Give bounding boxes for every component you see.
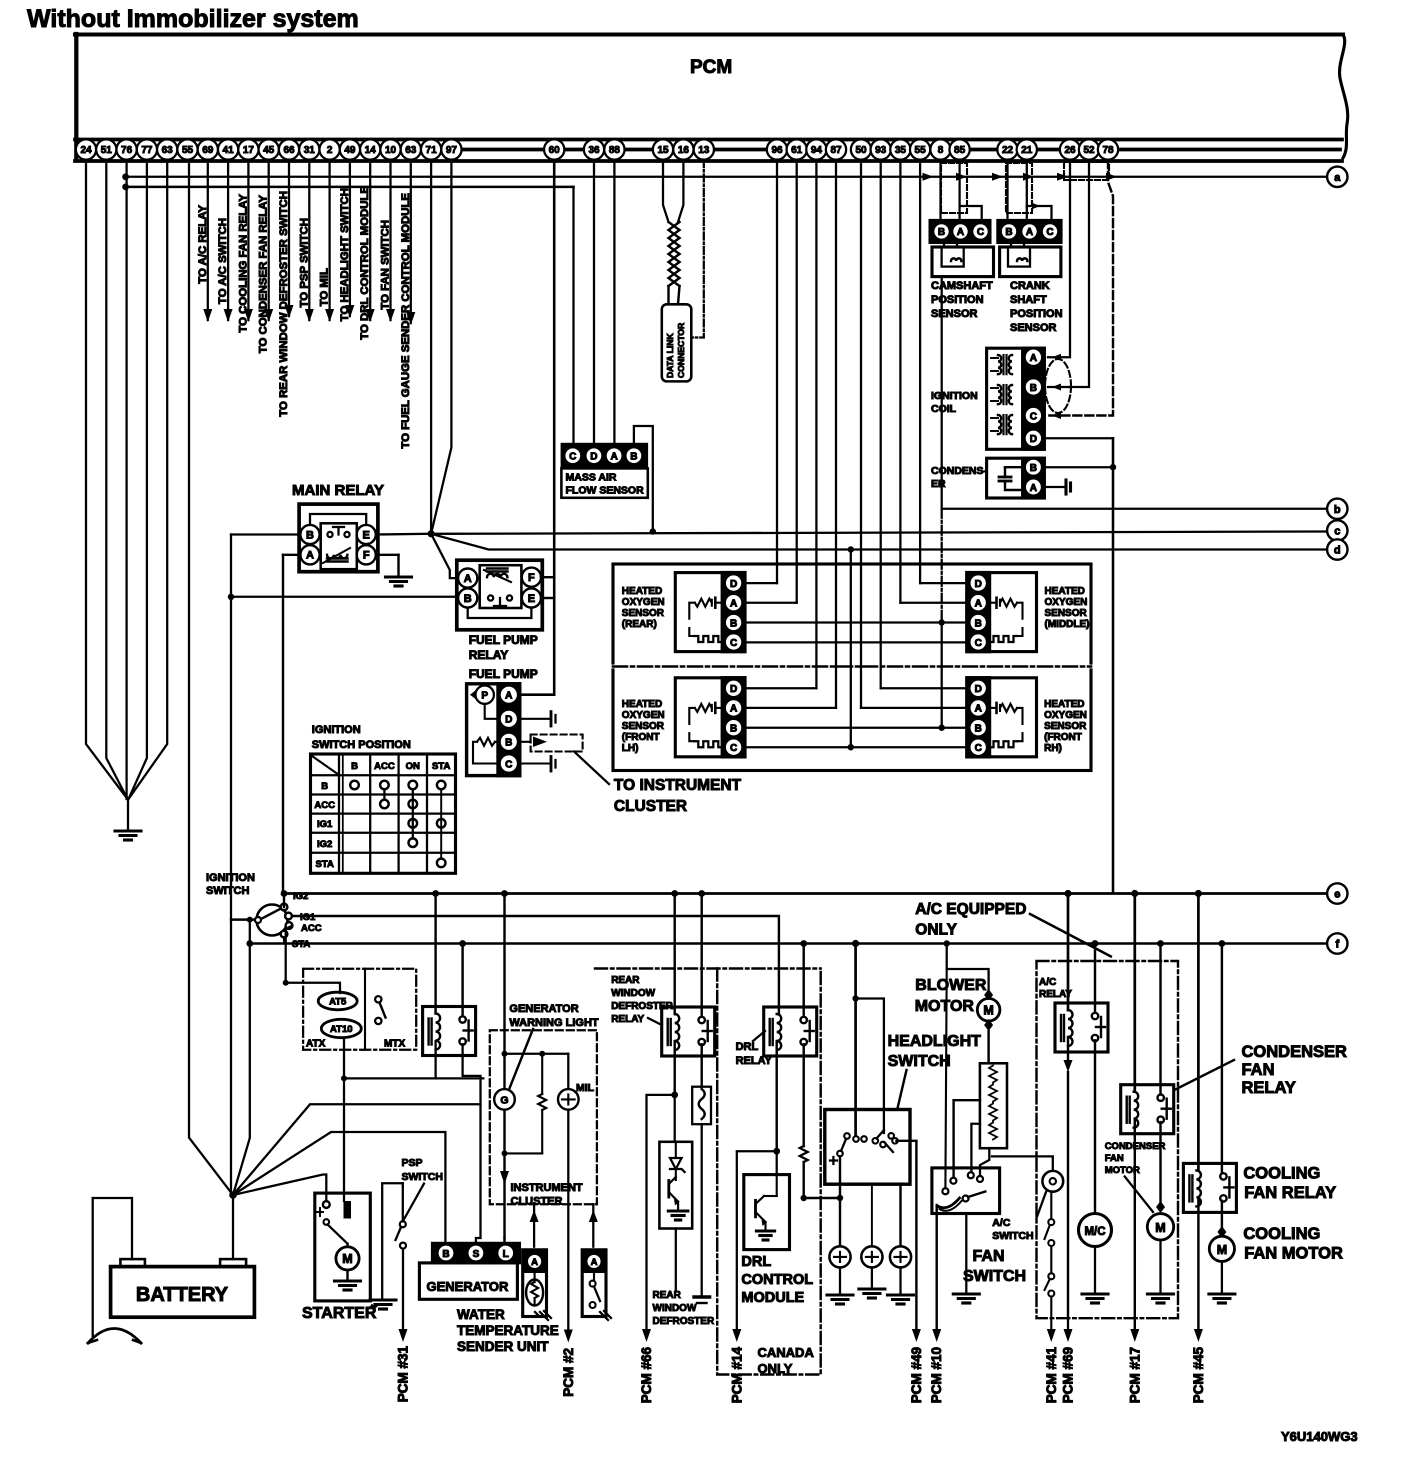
wire condenser B to right vertical (1044, 466, 1113, 468)
headlight switch outputs (839, 1156, 841, 1246)
bus line a from pin 76 to node a (126, 176, 1327, 178)
svg-text:A: A (1026, 227, 1033, 238)
fuel pump internal resistor (477, 738, 495, 746)
svg-text:CONDENSER: CONDENSER (1242, 1043, 1348, 1061)
svg-text:A/C: A/C (992, 1217, 1011, 1229)
wire IG1 to DRL relay (292, 916, 779, 1014)
DRL module transistor (776, 1175, 778, 1196)
thermal fuse box (692, 1087, 711, 1125)
wire node e to cooling fan relay coil and PCM 45 (1195, 890, 1202, 897)
svg-text:97: 97 (446, 145, 458, 156)
arrow PCM 45 (1194, 1329, 1203, 1342)
crankshaft position sensor shield dashed box (1006, 163, 1032, 213)
data link connector box (662, 304, 692, 381)
MIL lamp (567, 1054, 569, 1089)
wire node f to cooling fan relay contact (1219, 940, 1226, 947)
fuel pump internal wires (485, 704, 500, 719)
water temperature sender unit box (523, 1250, 547, 1317)
wire node e to defroster relay coil (671, 890, 678, 897)
svg-text:D: D (975, 579, 982, 590)
svg-text:D: D (975, 684, 982, 695)
PCM pin 60 (544, 139, 564, 159)
svg-text:B: B (1030, 383, 1037, 394)
AC relay contact output to MC clutch (1094, 1040, 1096, 1214)
svg-text:21: 21 (1021, 145, 1033, 156)
wire fuel pump C to battery bar (520, 762, 551, 764)
svg-text:A: A (957, 227, 964, 238)
svg-text:RH): RH) (1044, 743, 1062, 754)
svg-text:52: 52 (1083, 145, 1095, 156)
svg-text:MOTOR: MOTOR (1105, 1165, 1140, 1176)
wire node f to DRL relay contact (800, 940, 807, 947)
fuel pump relay inner box (480, 565, 522, 608)
fuel pump relay contact (488, 595, 493, 600)
AT10 ellipse (321, 1019, 361, 1037)
rear window defroster element (694, 1295, 710, 1298)
wire STA feed down to battery junction (233, 920, 250, 1195)
cluster feed bus (505, 1053, 569, 1055)
stub wire TO MIL (328, 160, 330, 320)
svg-text:MASS AIR: MASS AIR (566, 472, 617, 484)
leader condenser fan relay (1175, 1060, 1234, 1090)
svg-text:TO HEADLIGHT SWITCH: TO HEADLIGHT SWITCH (339, 188, 351, 321)
svg-text:B: B (938, 227, 945, 238)
svg-text:D: D (730, 579, 737, 590)
svg-text:ACC: ACC (314, 800, 335, 811)
node c line (431, 532, 1326, 534)
svg-text:MTX: MTX (384, 1039, 405, 1050)
svg-text:PCM #49: PCM #49 (909, 1347, 924, 1403)
svg-text:IGNITION: IGNITION (206, 872, 255, 884)
node c circle (1327, 520, 1347, 540)
twisted pair wires pins 15 16 to data link connector (663, 160, 669, 222)
wire junction to battery positive (232, 1195, 234, 1259)
svg-text:TO FUEL GAUGE SENDER CONTROL M: TO FUEL GAUGE SENDER CONTROL MODULE (400, 193, 412, 449)
wire pin 26 to ignition coil A (1048, 160, 1070, 357)
svg-text:A: A (730, 599, 737, 610)
svg-text:SWITCH: SWITCH (963, 1268, 1026, 1285)
arrow PCM 69 (1064, 1329, 1073, 1342)
DRL relay contact output (802, 1044, 804, 1146)
svg-text:22: 22 (1002, 145, 1014, 156)
main relay pin circles B A E F (300, 525, 319, 544)
svg-text:POSITION: POSITION (1010, 308, 1063, 320)
leader headlight switch (897, 1070, 906, 1109)
svg-text:2: 2 (327, 145, 333, 156)
svg-text:C: C (1046, 227, 1053, 238)
svg-text:b: b (1334, 504, 1341, 516)
wire fuel pump B to instrument cluster arrow (520, 741, 531, 743)
fan switch box (932, 1168, 1000, 1214)
stub wire TO CONDENSER FAN RELAY (268, 160, 270, 320)
svg-text:69: 69 (202, 145, 214, 156)
svg-text:SENSOR: SENSOR (1045, 608, 1088, 619)
canada only dashed box (595, 967, 821, 969)
PCM pins 8 85 (930, 139, 950, 159)
leader defroster relay (648, 1018, 662, 1025)
svg-text:PCM #45: PCM #45 (1191, 1347, 1206, 1404)
stub wire TO PSP SWITCH (308, 160, 310, 320)
svg-text:31: 31 (304, 145, 316, 156)
wire cluster to ammeter A right (592, 1204, 594, 1247)
svg-text:49: 49 (344, 145, 356, 156)
ignition switch position table grid (311, 754, 456, 873)
wire pin 52 to ignition coil B (1048, 160, 1089, 387)
svg-text:D: D (505, 715, 512, 726)
fan switch output to ground (965, 1214, 967, 1294)
svg-text:AT5: AT5 (329, 997, 347, 1008)
battery negative wire to body ground (93, 1198, 132, 1336)
defroster relay contact output to thermal fuse (700, 1044, 702, 1086)
svg-text:IG1: IG1 (317, 819, 333, 830)
fuel pump relay bottom internal wire (468, 608, 532, 618)
main relay box (299, 504, 378, 572)
condenser capacitor symbol (1004, 467, 1006, 477)
node f circle (1327, 933, 1347, 953)
wire fan switch resistor to AC switch knob (992, 1156, 1053, 1170)
leader AC equipped only (1030, 914, 1111, 956)
AT5 ellipse (318, 992, 357, 1010)
svg-text:SWITCH: SWITCH (992, 1230, 1033, 1242)
wire AT10 down to starter solenoid (343, 1038, 345, 1201)
svg-text:MODULE: MODULE (741, 1290, 804, 1306)
relay outputs (434, 1041, 436, 1078)
svg-text:TO DRL CONTROL MODULE: TO DRL CONTROL MODULE (359, 186, 371, 340)
svg-text:C: C (977, 227, 984, 238)
svg-text:A: A (464, 573, 472, 585)
MAF sensor connector (562, 445, 646, 468)
ignition coil box (987, 348, 1045, 449)
wire thermal fuse to defroster element (701, 1124, 703, 1297)
main relay coil (327, 555, 347, 558)
wire MIL to PCM 2 (567, 1110, 569, 1329)
wires pins 24 51 76 77 63 funnel to ground (86, 160, 128, 799)
node b line (942, 508, 1327, 510)
svg-text:B: B (1005, 227, 1012, 238)
svg-text:COIL: COIL (931, 403, 957, 415)
svg-text:41: 41 (223, 145, 235, 156)
PCM pin strip lines (75, 138, 1342, 142)
leader DRL relay (753, 1031, 765, 1041)
wire node f to AC relay contact (1092, 940, 1099, 947)
svg-text:DRL: DRL (741, 1254, 771, 1270)
svg-text:FLOW SENSOR: FLOW SENSOR (566, 485, 645, 497)
wire node e to relay coil (432, 890, 439, 897)
svg-text:d: d (1334, 545, 1341, 557)
svg-text:M: M (342, 1252, 352, 1266)
svg-text:COOLING: COOLING (1243, 1165, 1320, 1183)
svg-text:A: A (610, 452, 617, 463)
svg-text:45: 45 (263, 145, 275, 156)
crankshaft sensor connector B A C (998, 221, 1061, 243)
wire blower feed down to fan switch contact (945, 969, 946, 1188)
svg-text:(FRONT: (FRONT (1044, 732, 1082, 743)
svg-text:RELAY: RELAY (1242, 1079, 1296, 1097)
wire fuel pump relay F to pin 60 wire (541, 576, 554, 578)
stub wire TO FUEL GAUGE SENDER CONTROL MODULE (410, 160, 412, 323)
svg-text:TO CONDENSER FAN RELAY: TO CONDENSER FAN RELAY (258, 195, 270, 354)
wire pin 93 to front rh sensor D (880, 160, 882, 688)
svg-text:24: 24 (80, 145, 92, 156)
svg-text:e: e (1334, 889, 1340, 901)
wire pin 22 to crankshaft B (1006, 160, 1008, 221)
PCM pins 36 88 (584, 139, 604, 159)
wire pin 55 to middle sensor D (919, 160, 921, 583)
node d circle (1327, 539, 1347, 559)
svg-text:STARTER: STARTER (302, 1305, 377, 1322)
svg-text:ATX: ATX (306, 1039, 326, 1050)
stub wire TO COOLING FAN RELAY (247, 160, 249, 320)
svg-text:35: 35 (895, 145, 907, 156)
cooling fan relay contact output to motor (1221, 1201, 1223, 1228)
crankshaft sensor body with pickup coil (1000, 247, 1061, 277)
svg-text:IG1: IG1 (300, 912, 316, 923)
svg-text:10: 10 (385, 145, 397, 156)
svg-text:IGNITION: IGNITION (312, 724, 361, 736)
resistor taps (954, 1100, 980, 1178)
battery vertical wire main (230, 535, 232, 1196)
PSP feed to ground (382, 1183, 403, 1299)
svg-text:TO FAN SWITCH: TO FAN SWITCH (380, 220, 392, 310)
svg-text:PCM #31: PCM #31 (396, 1346, 411, 1403)
stub wire TO REAR WINDOW DEFROSTER SWITCH (288, 160, 290, 316)
svg-text:B: B (975, 618, 982, 629)
generator terminal S (462, 1243, 490, 1263)
wire pin 61 to rear sensor A (796, 160, 798, 603)
svg-text:a: a (1334, 172, 1341, 184)
arrow PCM 31 (399, 1329, 408, 1342)
wire front lh B to front rh B common (745, 727, 967, 729)
wire node e to condenser fan relay coil and PCM 17 (1131, 890, 1138, 897)
svg-text:GENERATOR: GENERATOR (509, 1003, 578, 1015)
svg-text:SENSOR: SENSOR (1044, 721, 1087, 732)
svg-text:DRL: DRL (736, 1041, 759, 1053)
svg-text:71: 71 (426, 145, 438, 156)
bus line 2 from pin 76 to MAF C (126, 186, 574, 189)
starter solenoid coil (344, 1201, 352, 1219)
wire pin 85 to camshaft A (958, 160, 960, 221)
leader generator warning light (508, 1029, 533, 1092)
node e circle (1327, 883, 1347, 903)
ground transistor (668, 1209, 688, 1212)
wire pin 50 to front rh sensor A (860, 160, 862, 708)
wire step to camshaft C (960, 206, 982, 221)
svg-text:88: 88 (609, 145, 621, 156)
wire pin 87 to front lh sensor A (835, 160, 837, 708)
svg-text:CRANK: CRANK (1010, 280, 1050, 292)
svg-text:66: 66 (283, 145, 295, 156)
svg-text:f: f (1335, 939, 1339, 951)
blower resistor block (980, 1063, 1007, 1148)
ground for pins 24-63 (115, 829, 141, 832)
svg-text:(REAR): (REAR) (622, 619, 657, 630)
wire pin 36 to MAF D (593, 160, 595, 445)
svg-text:TO PSP SWITCH: TO PSP SWITCH (298, 218, 310, 307)
svg-text:SWITCH: SWITCH (206, 885, 249, 897)
svg-text:M/C: M/C (1084, 1226, 1105, 1238)
svg-text:SWITCH POSITION: SWITCH POSITION (312, 739, 411, 751)
fuel pump relay pins A B F E (458, 569, 477, 588)
relay rear window defroster (662, 1007, 715, 1056)
svg-text:FAN: FAN (1242, 1061, 1275, 1079)
generator box (419, 1263, 517, 1299)
svg-text:PCM #69: PCM #69 (1061, 1347, 1076, 1403)
svg-text:CLUSTER: CLUSTER (614, 798, 687, 815)
relay DRL (764, 1007, 817, 1056)
svg-text:85: 85 (954, 145, 966, 156)
relay AC (1055, 1003, 1108, 1052)
node b circle (1327, 499, 1347, 519)
svg-text:C: C (975, 743, 982, 754)
wire node f to relay contact (459, 940, 466, 947)
svg-text:A: A (975, 704, 982, 715)
wire AC switch to PCM 41 (1050, 1297, 1052, 1330)
svg-text:55: 55 (182, 145, 194, 156)
svg-text:13: 13 (698, 145, 710, 156)
svg-text:HEATED: HEATED (622, 699, 662, 710)
leader to instrument cluster (574, 752, 609, 785)
svg-text:61: 61 (791, 145, 803, 156)
wire pin 13 dash-dot to data link connector (691, 160, 704, 338)
cooling fan motor M (1209, 1236, 1234, 1261)
wire front lh C to front rh C common (745, 746, 967, 748)
defroster relay coil output (673, 1041, 675, 1095)
svg-text:MOTOR: MOTOR (915, 998, 975, 1015)
wire pin 60 to fuel pump relay F and fuel pump A (553, 160, 556, 695)
body ground arc (88, 1329, 141, 1344)
svg-text:OXYGEN: OXYGEN (622, 710, 665, 721)
shield arrows on bus line a (923, 173, 934, 181)
svg-text:B: B (730, 618, 737, 629)
svg-text:A/C: A/C (1039, 977, 1056, 988)
svg-text:14: 14 (365, 145, 377, 156)
svg-text:PCM: PCM (690, 57, 732, 78)
cluster feed from node e (501, 890, 508, 897)
main relay inner box (321, 523, 357, 569)
leader AC switch (1037, 1192, 1047, 1218)
svg-text:F: F (363, 550, 370, 562)
PCM pins 15 16 13 (653, 139, 673, 159)
heated oxygen sensor front lh (675, 678, 745, 757)
zener diode (675, 1142, 677, 1158)
PCM pins 26 52 78 (1060, 139, 1080, 159)
DRL control module box (776, 1151, 778, 1174)
condenser fan motor M (1147, 1214, 1173, 1240)
node d line (431, 534, 1326, 550)
svg-text:DATA LINK: DATA LINK (665, 332, 675, 378)
wire cluster to ammeter A left (533, 1204, 535, 1247)
wire transistor down (675, 1229, 677, 1291)
svg-text:SENSOR: SENSOR (931, 308, 978, 320)
AC switch contacts (1050, 1192, 1052, 1219)
headlamp right (890, 1246, 911, 1267)
svg-text:CONNECTOR: CONNECTOR (676, 322, 686, 378)
ignition switch symbol (257, 905, 288, 936)
svg-text:REAR: REAR (653, 1290, 682, 1301)
wire fuel pump relay B to battery vertical (231, 596, 458, 598)
svg-text:ONLY: ONLY (758, 1361, 793, 1376)
wire bus2 to MAF C (572, 187, 574, 445)
svg-text:76: 76 (121, 145, 133, 156)
svg-text:17: 17 (243, 145, 255, 156)
svg-text:51: 51 (101, 145, 113, 156)
wire node f to headlight switch (852, 940, 859, 947)
wire pin 97 to junction (431, 160, 451, 534)
svg-text:A: A (505, 691, 512, 702)
wire pin 71 to junction (430, 160, 432, 534)
AC relay coil output to AC switch and PCM 69 (1067, 1037, 1069, 1060)
wire condenser A to ground (1044, 486, 1066, 488)
wire ignition coil D to right vertical (1044, 437, 1113, 439)
arrow PCM 10 (932, 1329, 941, 1342)
svg-text:FAN MOTOR: FAN MOTOR (1244, 1245, 1343, 1263)
svg-text:B: B (1030, 463, 1037, 474)
wire pin 35 to middle sensor A (899, 160, 901, 603)
AC equipped only dashed box (1037, 961, 1179, 1318)
svg-text:B: B (975, 724, 982, 735)
svg-text:C: C (1030, 411, 1037, 422)
starter solenoid terminal (323, 1201, 330, 1208)
DRL relay coil output (775, 1041, 777, 1151)
wire MAF B to node c line (634, 426, 653, 532)
relay condenser fan (1121, 1085, 1174, 1134)
arrow PCM 66 (642, 1329, 651, 1342)
wire to PCM 66 (647, 1095, 675, 1329)
svg-text:(FRONT: (FRONT (622, 732, 660, 743)
svg-text:TO COOLING FAN RELAY: TO COOLING FAN RELAY (237, 194, 249, 333)
node a circle (1327, 167, 1347, 187)
arrow PCM 49 (912, 1329, 921, 1342)
wire node d to front C common (850, 550, 852, 748)
svg-text:P: P (481, 691, 488, 702)
right long vertical from coil D to line e (1112, 438, 1115, 891)
svg-text:Without Immobilizer system: Without Immobilizer system (27, 5, 359, 33)
svg-text:SENSOR: SENSOR (622, 721, 665, 732)
PCM pins 50 93 35 55 (851, 139, 871, 159)
table circles and links (350, 781, 359, 790)
svg-text:L: L (503, 1249, 509, 1260)
arrow PCM 41 (1047, 1329, 1056, 1342)
ATX MTX dash box (303, 969, 416, 1050)
svg-text:WARNING LIGHT: WARNING LIGHT (509, 1017, 598, 1029)
wire pin 94 to front lh sensor D (815, 160, 817, 688)
svg-text:DEFROSTER: DEFROSTER (653, 1316, 715, 1327)
wire rear C to middle C (745, 641, 967, 643)
svg-text:BATTERY: BATTERY (136, 1284, 229, 1306)
fan switch wiper to PCM 10 (935, 1205, 937, 1329)
wire fuel pump relay E to fuel pump feed (541, 597, 554, 599)
svg-text:ACC: ACC (374, 761, 395, 772)
svg-text:SENSOR: SENSOR (622, 608, 665, 619)
svg-text:TO A/C RELAY: TO A/C RELAY (197, 205, 209, 284)
PCM pins 22 21 (997, 139, 1017, 159)
svg-text:OXYGEN: OXYGEN (622, 597, 665, 608)
svg-text:c: c (1334, 526, 1340, 538)
svg-text:B: B (351, 761, 358, 772)
svg-text:E: E (363, 529, 370, 541)
wire battery to ignition switch wiper (231, 918, 255, 920)
svg-text:BLOWER: BLOWER (915, 977, 987, 994)
starter box (315, 1193, 371, 1301)
svg-text:C: C (730, 743, 737, 754)
svg-text:WATER: WATER (457, 1307, 505, 1322)
wire headlight switch contact to PCM 49 (897, 1141, 917, 1329)
svg-text:FAN: FAN (1105, 1153, 1124, 1164)
svg-text:PCM #10: PCM #10 (929, 1347, 944, 1403)
svg-text:93: 93 (875, 145, 887, 156)
svg-text:A: A (975, 599, 982, 610)
svg-text:SENSOR: SENSOR (1010, 322, 1057, 334)
